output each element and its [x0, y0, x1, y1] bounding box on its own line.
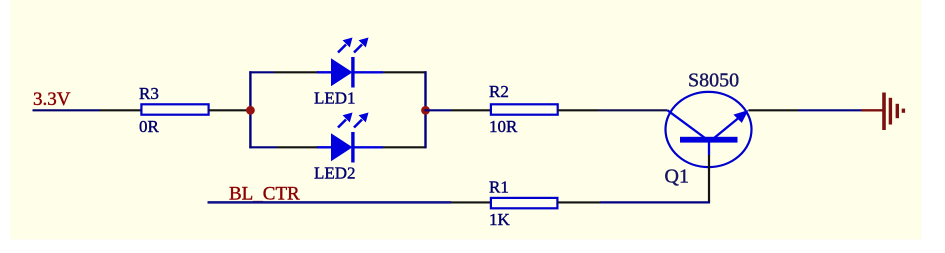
Q1 emitter arrowhead — [733, 110, 748, 123]
wire left vertical of LED parallel loop — [249, 71, 251, 148]
pin R1.2 (black) — [557, 201, 600, 203]
LED2 cathode bar — [351, 132, 354, 163]
svg-text:1K: 1K — [489, 210, 511, 229]
wire to ground (navy) — [798, 109, 862, 111]
LED2 arrow 2 — [354, 120, 362, 128]
LED2 arrow 1 — [338, 120, 346, 128]
wire BL_CTR (navy) — [208, 201, 452, 204]
wire top row black segment to corner — [383, 71, 427, 73]
wire R1 to Q1 base (navy) — [600, 201, 710, 203]
Q1 base bar — [680, 137, 738, 143]
LED1 cathode bar — [351, 57, 354, 88]
Q1 collector line — [668, 110, 706, 138]
svg-text:LED1: LED1 — [314, 89, 356, 108]
resistor R2 — [491, 104, 558, 114]
ground bar 1 — [882, 93, 886, 131]
ground bar 2 — [889, 98, 892, 125]
pin LED2 cathode (blue) — [354, 146, 383, 148]
svg-text:Q1: Q1 — [665, 166, 689, 188]
resistor R3 — [141, 104, 208, 114]
svg-text:LED2: LED2 — [314, 164, 356, 183]
pin LED1 cathode (blue) — [354, 71, 383, 73]
Q1 base lead (blue inside circle) — [708, 141, 710, 155]
Q1 emitter line — [714, 114, 745, 139]
svg-text:R2: R2 — [489, 82, 509, 101]
pin R1.1 (black) — [451, 201, 492, 203]
wire Q1 emitter to ground (black) — [749, 109, 799, 111]
LED1 arrow 2 — [354, 45, 362, 53]
pin LED1 anode (blue) — [317, 71, 332, 73]
svg-text:R1: R1 — [489, 177, 509, 196]
wire R2 to Q1 collector — [598, 109, 668, 111]
ground bar 3 — [896, 104, 899, 118]
ground bar 4 — [902, 109, 905, 113]
LED1 arrow 1 — [338, 45, 346, 53]
pin R2.2 (black) — [558, 109, 598, 111]
svg-text:0R: 0R — [139, 117, 160, 136]
svg-text:3.3V: 3.3V — [33, 89, 71, 110]
wire / pin R3.1 (black) — [100, 109, 142, 111]
LED1 diode triangle — [331, 58, 353, 86]
pin R2.1 (black) — [451, 109, 492, 111]
wire bottom row navy segment — [249, 146, 277, 148]
svg-text:10R: 10R — [489, 117, 518, 136]
wire right vertical of LED parallel loop — [424, 71, 426, 148]
transistor Q1 body circle — [666, 92, 752, 167]
wire junction to R2 (navy) — [425, 109, 452, 111]
junction right node — [421, 106, 430, 115]
wire bottom row black segment — [277, 146, 318, 148]
wire / pin R3.2 (black) — [209, 109, 250, 111]
wire top row navy segment — [249, 71, 274, 73]
LED2 diode triangle — [331, 133, 353, 161]
svg-text:S8050: S8050 — [688, 70, 739, 92]
resistor R1 — [491, 198, 558, 208]
wire Q1 base lead down (black) — [708, 155, 710, 203]
wire bottom row black segment to corner — [383, 146, 427, 148]
wire top row black segment — [274, 71, 318, 73]
ground lead (dark red) — [862, 109, 884, 111]
junction left node — [246, 106, 255, 115]
wire 3.3V power lead (navy) — [33, 109, 101, 111]
pin LED2 anode (blue) — [317, 146, 332, 148]
svg-text:R3: R3 — [139, 84, 159, 103]
